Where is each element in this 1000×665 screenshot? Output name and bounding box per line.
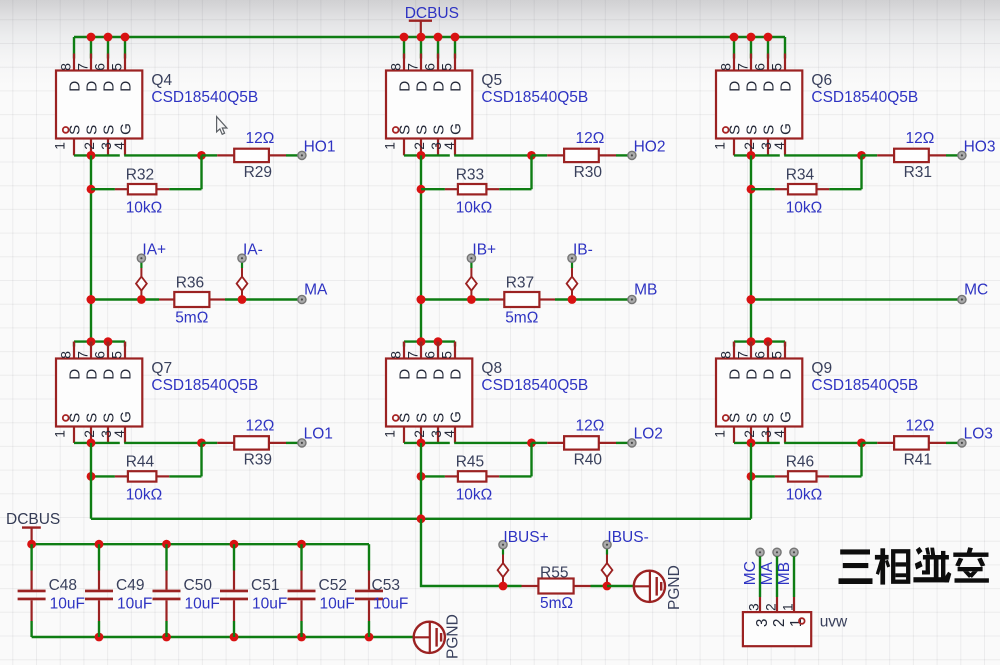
junction dots on DCBUS bus [400,33,460,42]
svg-text:S: S [744,413,761,423]
svg-text:LO1: LO1 [304,425,333,442]
svg-text:R41: R41 [904,451,932,468]
svg-text:D: D [84,369,101,380]
svg-text:G: G [778,411,795,423]
svg-text:4: 4 [442,430,457,438]
svg-text:IBUS+: IBUS+ [503,529,548,546]
wire: drain stubs of Q6 to DCBUS [734,37,785,59]
wire: Q7 source row [74,442,120,444]
svg-text:10kΩ: 10kΩ [126,199,163,216]
svg-text:7: 7 [406,351,421,359]
svg-text:R33: R33 [456,166,484,183]
svg-text:S: S [761,413,778,423]
svg-text:7: 7 [76,351,91,359]
svg-text:8: 8 [719,63,734,71]
junction dot phase column [747,295,756,304]
svg-text:CSD18540Q5B: CSD18540Q5B [481,377,588,394]
svg-text:10kΩ: 10kΩ [126,487,163,504]
svg-text:CSD18540Q5B: CSD18540Q5B [811,89,918,106]
junction dot at lower 10k row [747,472,756,481]
svg-text:D: D [778,81,795,92]
svg-text:D: D [744,369,761,380]
svg-text:IB-: IB- [573,242,593,259]
wire: drain stubs of Q9 [734,342,785,347]
svg-text:G: G [118,123,135,135]
svg-text:HO2: HO2 [634,139,666,156]
svg-text:CSD18540Q5B: CSD18540Q5B [811,377,918,394]
junction dot gate node [857,439,866,448]
svg-text:4: 4 [772,430,787,438]
junction dot gate node [857,151,866,160]
svg-text:10uF: 10uF [320,595,355,612]
Q4 pin numbers 8 7 6 5 (top) and 1 2 3 4 (bottom), pin names D D D D / S S S G [53,63,135,150]
resistor R45 10k gate-source resistor [421,443,532,482]
sense diamond IA+ [136,262,147,299]
svg-text:R44: R44 [126,454,155,471]
junction dot gate node [197,151,206,160]
svg-text:12Ω: 12Ω [906,418,935,435]
resistor R30 12ohm gate resistor [532,149,629,162]
net pin MC [958,295,966,303]
svg-text:IB+: IB+ [472,242,496,259]
wire: Q9 source down to PGND rail [750,443,752,519]
junction dots on DCBUS bus [87,33,130,42]
junction dots on cap DCBUS rail [95,540,306,549]
svg-text:5: 5 [440,351,455,359]
svg-text:S: S [744,125,761,135]
svg-text:LO3: LO3 [964,425,993,442]
svg-text:PGND: PGND [666,565,683,610]
svg-text:R40: R40 [574,451,603,468]
svg-text:D: D [761,369,778,380]
mouse cursor [217,117,227,135]
ground PGND (capacitor bank) [414,622,445,653]
svg-text:DCBUS: DCBUS [6,511,60,528]
svg-text:CSD18540Q5B: CSD18540Q5B [151,377,258,394]
svg-text:12Ω: 12Ω [246,130,275,147]
svg-text:D: D [67,81,84,92]
svg-text:6: 6 [93,63,108,71]
svg-text:4: 4 [772,142,787,150]
svg-text:5: 5 [440,63,455,71]
wire: Q9 drain tie bar [734,340,785,342]
sense diamond IA- [237,262,248,299]
net pin IBUS- [603,541,611,549]
connector uvw body [743,612,811,646]
svg-text:S: S [431,125,448,135]
net pin IB+ [467,254,475,262]
svg-text:D: D [101,369,118,380]
svg-text:MB: MB [776,562,793,585]
svg-text:G: G [118,411,135,423]
capacitor C50 10uF [153,544,181,637]
svg-text:S: S [84,125,101,135]
junction dot source node [417,151,426,160]
net pin HO1 [298,151,306,159]
resistor R29 12ohm gate resistor [202,149,299,162]
svg-text:6: 6 [753,63,768,71]
svg-text:MA: MA [759,561,776,585]
svg-text:D: D [448,369,465,380]
net pin IA+ [137,254,145,262]
resistor R39 12ohm gate resistor [202,436,299,449]
shunt resistor R36 5mohm [174,292,209,307]
Q8 pin-1 marker circle [393,415,399,421]
wire: Q8 source down to PGND rail [420,443,422,519]
svg-text:12Ω: 12Ω [246,418,275,435]
transistor Q7 body [56,342,142,443]
svg-text:DCBUS: DCBUS [405,5,459,22]
svg-text:D: D [727,369,744,380]
junction dot phase column [87,295,96,304]
svg-text:7: 7 [406,63,421,71]
svg-text:S: S [431,413,448,423]
resistor R33 10k gate-source resistor [421,155,532,194]
svg-text:1: 1 [781,603,796,611]
net pin LO3 [958,439,966,447]
net label DCBUS (top) [405,5,459,37]
transistor Q9 body [716,342,802,443]
junction dot source node [747,439,756,448]
net pin LO1 [298,439,306,447]
resistor R40 12ohm gate resistor [532,436,629,449]
Q5 pin-1 marker circle [393,127,399,133]
svg-text:G: G [778,123,795,135]
svg-text:12Ω: 12Ω [576,130,605,147]
resistor R46 10k gate-source resistor [751,443,862,482]
svg-text:D: D [414,369,431,380]
svg-text:4: 4 [112,430,127,438]
svg-text:D: D [118,369,135,380]
wire: capacitor bank DCBUS rail [32,543,369,545]
svg-text:2: 2 [82,430,97,438]
capacitor C52 10uF [288,544,316,637]
wire: phase C output row [751,298,962,300]
Q4 pin-1 marker circle [63,127,69,133]
Q9 pin numbers 8 7 6 5 (top) and 1 2 3 4 (bottom), pin names D D D D / S S S G [713,351,795,438]
net pin MA [298,295,306,303]
svg-text:D: D [727,81,744,92]
junction dot at lower 10k row [87,472,96,481]
connector pin net MB [790,548,798,612]
net pin IB- [568,254,576,262]
connector inner pin numbers 3 2 1 [754,619,805,628]
title char: xiang (phase) [875,548,890,584]
junction dot at phase node row [417,295,426,304]
svg-text:5: 5 [110,351,125,359]
title char: ni (inverse) [913,547,951,583]
junction dot at phase node row [747,295,756,304]
svg-text:D: D [414,81,431,92]
svg-text:10uF: 10uF [117,595,152,612]
svg-text:3: 3 [754,619,771,628]
svg-text:S: S [101,125,118,135]
junction dots on drain tie [747,337,756,346]
svg-text:R32: R32 [126,166,154,183]
svg-text:1: 1 [383,142,398,150]
wire: phase row to shunt R36 [91,298,298,300]
shunt resistor R55 5mohm [503,579,607,594]
svg-text:HO1: HO1 [304,139,336,156]
svg-text:D: D [118,81,135,92]
svg-text:10kΩ: 10kΩ [456,199,493,216]
svg-text:R29: R29 [244,164,272,181]
svg-text:PGND: PGND [445,614,462,659]
wire: phase row to shunt R37 [421,298,628,300]
junction dot at 10k resistor row [87,185,96,194]
svg-text:Q8: Q8 [481,360,502,377]
Q7 pin numbers 8 7 6 5 (top) and 1 2 3 4 (bottom), pin names D D D D / S S S G [53,351,135,438]
junction dots on drain tie [87,337,96,346]
svg-text:HO3: HO3 [964,139,996,156]
wire: source column 91 down [90,155,92,341]
svg-text:1: 1 [383,430,398,438]
svg-text:D: D [431,81,448,92]
svg-text:S: S [414,413,431,423]
wire: Q7 drain tie bar [74,340,125,342]
svg-text:LO2: LO2 [634,425,663,442]
wire: Q6 source row [734,154,780,156]
junction dot source node [417,439,426,448]
resistor R34 10k gate-source resistor [751,155,862,194]
svg-text:S: S [101,413,118,423]
svg-text:R37: R37 [506,275,534,292]
svg-text:2: 2 [764,603,779,611]
transistor Q4 body [56,54,142,156]
svg-text:R36: R36 [176,275,204,292]
wire: Q7 source down to PGND rail [90,443,92,519]
svg-text:7: 7 [736,351,751,359]
svg-text:R55: R55 [540,564,568,581]
svg-text:2: 2 [412,142,427,150]
wire: capacitor bank ground rail [32,636,414,638]
svg-text:CSD18540Q5B: CSD18540Q5B [481,89,588,106]
svg-text:R46: R46 [786,454,814,471]
svg-text:G: G [448,123,465,135]
svg-text:6: 6 [423,63,438,71]
junction dot gate node [527,151,536,160]
junction dots on DCBUS bus [730,33,773,42]
Q6 pin-1 marker circle [723,127,729,133]
resistor R41 12ohm gate resistor [862,436,959,449]
svg-text:uvw: uvw [820,614,848,631]
resistor R32 10k gate-source resistor [91,155,202,194]
sense diamond IB- [567,262,578,299]
svg-text:IA+: IA+ [142,242,166,259]
capacitor C53 10uF [355,544,383,637]
net pin IA- [238,254,246,262]
svg-text:8: 8 [389,351,404,359]
svg-text:1: 1 [788,619,805,628]
svg-text:7: 7 [736,63,751,71]
svg-text:Q9: Q9 [811,360,832,377]
capacitor C51 10uF [220,544,248,637]
svg-text:5mΩ: 5mΩ [175,310,208,327]
junction dot at 10k resistor row [417,185,426,194]
junction dot at lower 10k row [417,472,426,481]
wire: rail down to IBUS row [421,519,503,586]
junction dot rail/phase B [417,514,426,523]
svg-text:C50: C50 [184,577,213,594]
capacitor C48 10uF [18,544,46,637]
junction dots IBUS taps [499,582,508,591]
wire: drain stubs of Q8 [404,342,455,347]
svg-text:10uF: 10uF [252,595,287,612]
svg-text:C52: C52 [319,577,347,594]
svg-text:8: 8 [59,63,74,71]
wire: Q8 drain tie bar [404,340,455,342]
Q6 pin numbers 8 7 6 5 (top) and 1 2 3 4 (bottom), pin names D D D D / S S S G [713,63,795,150]
Q8 pin numbers 8 7 6 5 (top) and 1 2 3 4 (bottom), pin names D D D D / S S S G [383,351,465,438]
svg-text:D: D [397,81,414,92]
wire: drain stubs of Q4 to DCBUS [74,37,125,59]
svg-text:MA: MA [304,281,328,298]
svg-text:D: D [761,81,778,92]
net pin HO3 [958,151,966,159]
svg-text:D: D [397,369,414,380]
junction dot source node [87,439,96,448]
svg-text:4: 4 [442,142,457,150]
transistor Q8 body [386,342,472,443]
svg-text:2: 2 [742,430,757,438]
svg-text:D: D [67,369,84,380]
wire: Q4 source row [74,154,120,156]
svg-text:4: 4 [112,142,127,150]
junction dots at shunt taps [467,295,476,304]
transistor Q5 body [386,54,472,156]
svg-text:MC: MC [964,281,988,298]
connector pin net MC [756,548,764,612]
junction dots on cap ground rail [95,633,374,642]
svg-text:C49: C49 [116,577,144,594]
capacitor C49 10uF [85,544,113,637]
wire: Q5 gate row [454,154,531,156]
svg-text:2: 2 [742,142,757,150]
svg-text:Q5: Q5 [481,72,502,89]
wire: drain stubs of Q5 to DCBUS [404,37,455,59]
transistor Q6 body [716,54,802,156]
sense diamond IB+ [466,262,477,299]
sense diamond IBUS+ [498,549,509,586]
svg-text:8: 8 [59,351,74,359]
svg-text:R30: R30 [574,164,603,181]
net pin HO2 [628,151,636,159]
svg-text:10uF: 10uF [50,595,85,612]
sense diamond IBUS- [602,549,613,586]
svg-text:D: D [101,81,118,92]
junction dot gate node [527,439,536,448]
net pin IBUS+ [499,541,507,549]
wire: source column 751 down [750,155,752,341]
svg-text:Q6: Q6 [811,72,832,89]
wire: Q9 gate row [784,442,861,444]
wire: drain stubs of Q7 [74,342,125,347]
svg-text:12Ω: 12Ω [576,418,605,435]
svg-text:2: 2 [771,619,788,628]
svg-text:12Ω: 12Ω [906,130,935,147]
wire: DCBUS top bus [74,36,785,38]
svg-text:10kΩ: 10kΩ [786,487,823,504]
svg-text:CSD18540Q5B: CSD18540Q5B [151,89,258,106]
junction dot gate node [197,439,206,448]
wire: source column 421 down [420,155,422,341]
svg-text:2: 2 [412,430,427,438]
wire: Q8 source row [404,442,450,444]
svg-text:8: 8 [719,351,734,359]
svg-text:G: G [448,411,465,423]
svg-text:5: 5 [770,63,785,71]
svg-text:7: 7 [76,63,91,71]
wire: IBUS- to PGND [607,585,634,587]
wire: Q6 gate row [784,154,861,156]
svg-text:R39: R39 [244,451,272,468]
svg-text:6: 6 [753,351,768,359]
svg-text:5: 5 [110,63,125,71]
junction dot source node [747,151,756,160]
svg-text:5: 5 [770,351,785,359]
svg-text:S: S [84,413,101,423]
svg-text:1: 1 [53,142,68,150]
svg-text:10uF: 10uF [185,595,220,612]
wire: Q4 gate row [124,154,201,156]
svg-text:10uF: 10uF [373,595,408,612]
svg-text:R31: R31 [904,164,932,181]
net pin MB [628,295,636,303]
svg-text:S: S [414,125,431,135]
net label DCBUS (bottom left) [6,511,60,544]
wire: common low-side source rail [91,518,751,520]
svg-text:IA-: IA- [243,242,263,259]
Q7 pin-1 marker circle [63,415,69,421]
svg-text:10kΩ: 10kΩ [456,487,493,504]
svg-text:MC: MC [742,561,759,585]
resistor R31 12ohm gate resistor [862,149,959,162]
junction dot at phase node row [87,295,96,304]
title char: bian (change) [953,547,989,583]
connector pin-1 marker [799,618,805,624]
svg-text:3: 3 [747,603,762,611]
junction dot source node [87,151,96,160]
svg-text:D: D [431,369,448,380]
wire: Q8 gate row [454,442,531,444]
svg-text:8: 8 [389,63,404,71]
connector pin net MA [773,548,781,612]
title char: san (three) [839,549,873,584]
svg-text:D: D [448,81,465,92]
shunt resistor R37 5mohm [504,292,539,307]
svg-text:1: 1 [713,142,728,150]
svg-text:S: S [761,125,778,135]
svg-text:5mΩ: 5mΩ [505,310,538,327]
svg-text:10kΩ: 10kΩ [786,199,823,216]
junction dots on drain tie [417,337,426,346]
junction dot DCBUS tap [27,540,36,549]
svg-text:R34: R34 [786,166,815,183]
svg-text:Q4: Q4 [151,72,172,89]
svg-text:MB: MB [634,281,657,298]
junction dot phase column [417,295,426,304]
svg-text:D: D [84,81,101,92]
svg-text:5mΩ: 5mΩ [540,595,573,612]
svg-text:6: 6 [93,351,108,359]
svg-text:D: D [778,369,795,380]
svg-text:1: 1 [53,430,68,438]
Q5 pin numbers 8 7 6 5 (top) and 1 2 3 4 (bottom), pin names D D D D / S S S G [383,63,465,150]
svg-text:C51: C51 [251,577,279,594]
svg-text:C48: C48 [49,577,77,594]
svg-text:6: 6 [423,351,438,359]
svg-text:2: 2 [82,142,97,150]
